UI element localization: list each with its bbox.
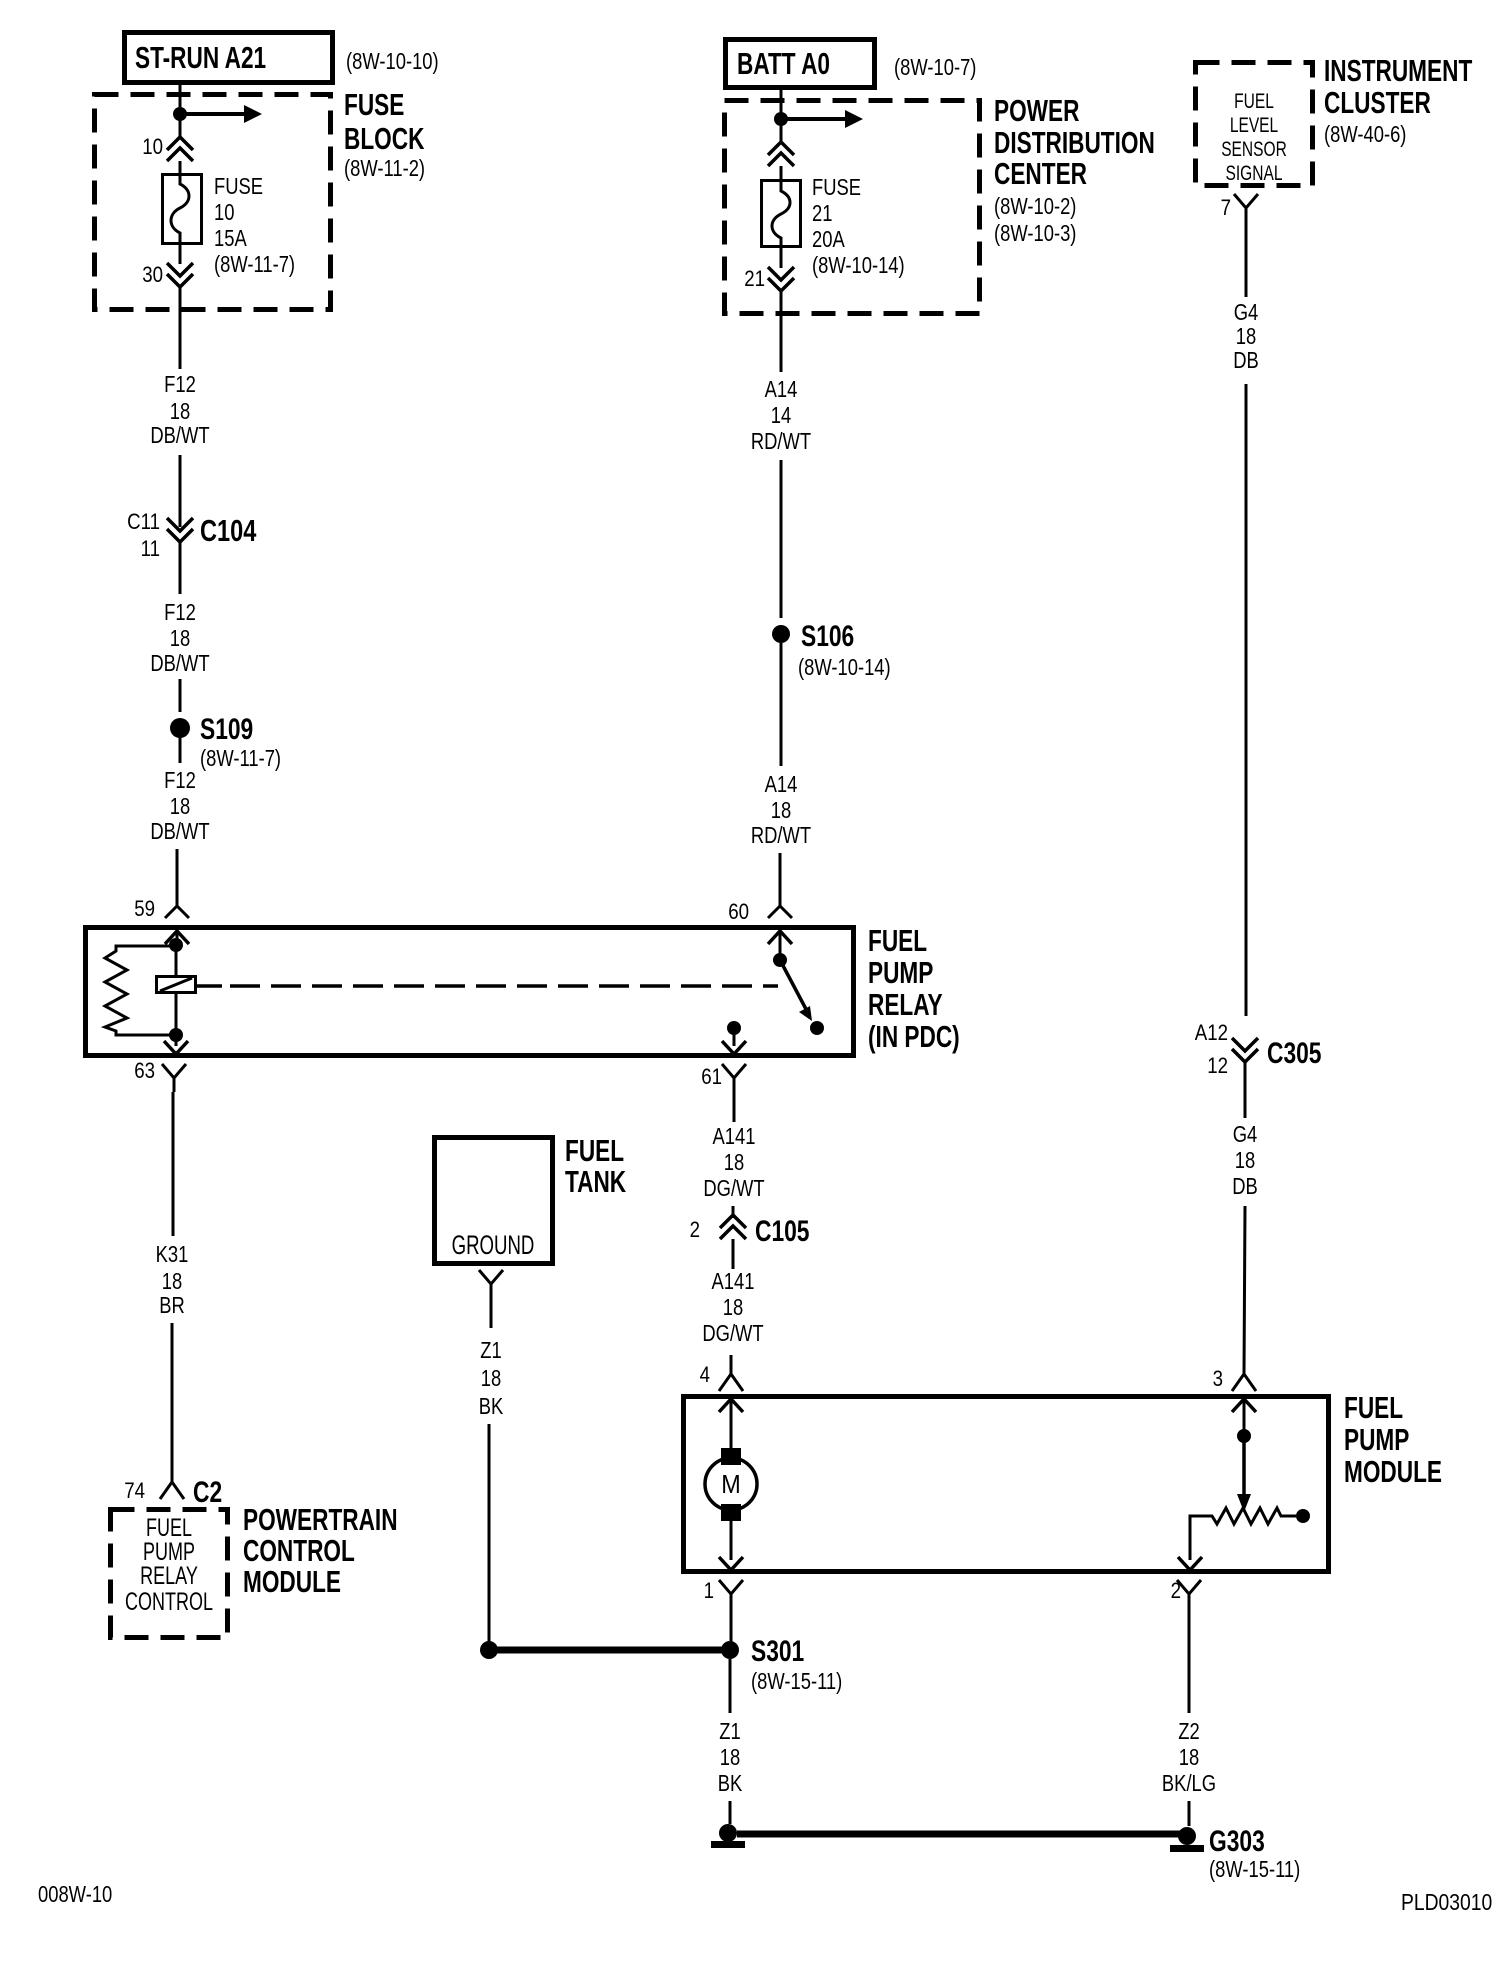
node switch common dot [773,953,787,967]
wire pin 61 [733,1028,736,1046]
node pin 61 dot [727,1021,741,1035]
label wire A141 18 DG/WT (upper) [703,1124,765,1201]
pin 2 connector halves [1177,1557,1202,1608]
powertrain control module dashed box [111,1510,228,1638]
wire S301 down [729,1659,732,1713]
svg-text:BR: BR [159,1293,185,1318]
wire pin 7 down [1245,222,1248,297]
svg-text:F12: F12 [164,768,196,793]
svg-text:CONTROL: CONTROL [125,1587,213,1616]
svg-text:MODULE: MODULE [1344,1453,1442,1488]
svg-text:20A: 20A [812,227,845,252]
node relay coil top junction [169,938,183,952]
node junction dot in PDC [774,112,788,126]
pin 10 connector chevron [167,137,193,161]
svg-text:11: 11 [141,538,160,562]
wire junction to connector [780,119,783,143]
wire C105 down [732,1239,735,1269]
splice S301 dot [721,1641,739,1659]
pin 4 connector half [719,1374,743,1391]
svg-text:TANK: TANK [565,1163,626,1198]
svg-text:18: 18 [481,1366,501,1391]
instrument cluster dashed enclosure [1196,63,1313,186]
wire arrow to other circuits [180,105,262,123]
pin 4 inner chevron [719,1399,743,1450]
svg-text:(8W-15-11): (8W-15-11) [751,1669,842,1694]
svg-text:60: 60 [728,901,749,925]
svg-text:GROUND: GROUND [452,1230,535,1260]
wire pin 30 out of fuse block [179,287,182,369]
node relay coil bottom junction [169,1028,183,1042]
splice S109 dot [170,718,190,738]
wire pin 63 down [172,1092,175,1236]
label G303 (8W-15-11) [1209,1824,1300,1883]
svg-text:63: 63 [134,1060,155,1084]
wire long run to C305 [1245,384,1248,1016]
svg-text:FUEL: FUEL [868,922,927,957]
svg-text:BK: BK [479,1394,504,1419]
connector C104 chevron [167,518,193,542]
svg-text:INSTRUMENT: INSTRUMENT [1324,52,1473,87]
svg-text:(8W-40-6): (8W-40-6) [1324,122,1406,147]
pin 1 connector halves [719,1557,743,1608]
label S106 (8W-10-14) [798,619,891,681]
wire link to S301 [489,1647,730,1654]
fuel tank box [435,1138,553,1264]
svg-text:PUMP: PUMP [868,954,933,989]
fuse 10 15A symbol [163,173,202,245]
wire fuse to pin 30 [179,244,182,264]
svg-text:18: 18 [170,399,190,424]
svg-text:7: 7 [1221,197,1231,221]
PDC connector chevron [768,142,794,166]
wire coil top [175,945,178,976]
svg-text:(8W-10-10): (8W-10-10) [346,49,439,74]
svg-text:C104: C104 [200,513,257,548]
wire tank ground down [490,1298,493,1328]
svg-text:C305: C305 [1267,1036,1322,1070]
wire ST-RUN A21 to junction [179,85,182,114]
wire S109 below [179,738,182,763]
svg-text:18: 18 [170,626,190,651]
svg-text:(8W-15-11): (8W-15-11) [1209,1857,1300,1882]
svg-text:G4: G4 [1234,300,1259,325]
svg-text:A141: A141 [713,1124,756,1149]
pin 7 connector half [1234,194,1258,222]
svg-text:18: 18 [724,1150,744,1175]
node BATT A0 feed box [726,40,875,88]
svg-text:18: 18 [771,798,791,823]
pin 21 connector chevron [768,267,794,291]
pin 61 connector halves [722,1041,746,1094]
svg-text:(8W-10-2): (8W-10-2) [994,194,1076,219]
label POWER DISTRIBUTION CENTER (8W-10-2) (8W-10-3) [994,92,1155,246]
svg-text:(8W-11-2): (8W-11-2) [344,156,425,181]
wire S106 down [780,643,783,766]
pin 60 connector halves [768,906,792,960]
svg-text:BATT A0: BATT A0 [737,45,830,80]
svg-text:C11: C11 [127,511,160,535]
svg-text:59: 59 [134,898,155,922]
wire coil to pin 63 [175,1035,178,1046]
svg-text:2: 2 [690,1219,700,1243]
node sender resistor end dot [1296,1509,1310,1523]
svg-text:A12: A12 [1195,1022,1228,1046]
svg-text:21: 21 [744,268,765,292]
svg-text:FUEL: FUEL [1344,1389,1403,1424]
svg-text:CLUSTER: CLUSTER [1324,84,1431,119]
svg-text:21: 21 [812,201,832,226]
label POWERTRAIN CONTROL MODULE [243,1501,398,1598]
svg-text:18: 18 [162,1269,182,1294]
svg-text:2: 2 [1171,1580,1181,1604]
resistor shunt across coil [105,946,176,1035]
label S301 (8W-15-11) [751,1634,842,1695]
svg-text:DB: DB [1232,1174,1258,1199]
svg-text:C2: C2 [193,1475,222,1509]
label wire Z1 18 BK (tank) [479,1338,504,1419]
fuse 21 20A symbol [762,181,801,248]
wire K31 to PCM [171,1323,174,1482]
wire ground link to G303 [737,1831,1180,1838]
svg-text:K31: K31 [156,1242,189,1267]
svg-text:FUEL: FUEL [1234,89,1274,113]
pin 63 connector halves [162,1041,188,1092]
wire tank ground to S301 link [488,1424,491,1645]
svg-text:C105: C105 [755,1214,810,1248]
sender variable resistor [1190,1508,1296,1560]
svg-text:S301: S301 [751,1634,804,1668]
splice S106 dot [772,625,790,643]
svg-text:F12: F12 [164,600,196,625]
connector C105 chevron [720,1215,746,1239]
svg-text:74: 74 [124,1480,145,1504]
wire pin 61 down [733,1094,736,1122]
label FUSE 21 20A (8W-10-14) [812,175,905,278]
fuel pump relay box [86,928,854,1056]
wire to connector C105 [732,1206,735,1218]
svg-text:18: 18 [1236,324,1256,349]
wire junction to pin 10 [179,114,182,138]
svg-text:(8W-10-3): (8W-10-3) [994,221,1076,246]
pin 59 connector halves [165,906,189,945]
label wire G4 18 DB (lower) [1232,1122,1258,1199]
svg-text:RD/WT: RD/WT [751,429,812,454]
svg-text:3: 3 [1213,1368,1223,1392]
svg-text:RD/WT: RD/WT [751,823,812,848]
svg-text:(8W-10-14): (8W-10-14) [812,253,905,278]
svg-text:(IN PDC): (IN PDC) [868,1018,960,1053]
wire to module pin 3 [1244,1206,1245,1374]
wire pin 1 to S301 [730,1608,733,1642]
pin 74 connector half [160,1482,184,1499]
svg-text:18: 18 [170,794,190,819]
wire arrow to other circuits [781,110,863,128]
svg-text:15A: 15A [214,226,247,251]
svg-text:(8W-11-7): (8W-11-7) [200,746,281,771]
node sender wiper junction dot [1237,1429,1251,1443]
power distribution center dashed enclosure [725,101,980,314]
svg-text:18: 18 [720,1745,740,1770]
wire pin 2 down [1188,1608,1191,1713]
label FUSE BLOCK (8W-11-2) [344,86,425,181]
wire to splice S109 [179,679,182,712]
svg-text:F12: F12 [164,372,196,397]
wire to connector C104 [179,455,182,527]
fuel pump module box [684,1397,1329,1572]
svg-text:PUMP: PUMP [1344,1421,1409,1456]
svg-text:S109: S109 [200,712,253,746]
svg-text:10: 10 [214,200,234,225]
svg-text:30: 30 [142,264,163,288]
wire to ground G303 link [729,1801,732,1824]
label wire K31 18 BR [156,1242,189,1318]
wire to fuse 21 [780,166,783,181]
label S109 (8W-11-7) [200,712,281,772]
svg-text:BLOCK: BLOCK [344,120,425,155]
label wire G4 18 DB (upper) [1233,300,1259,373]
svg-text:Z1: Z1 [719,1719,740,1744]
svg-text:BK/LG: BK/LG [1162,1771,1216,1796]
svg-text:CENTER: CENTER [994,155,1087,190]
node junction dot in fuse block [173,107,187,121]
dashed actuation line [196,984,778,988]
wire pin 10 to fuse [179,161,182,175]
label FUEL PUMP RELAY CONTROL [125,1513,213,1616]
label wire F12 18 DB/WT (lower) [150,768,209,844]
wire coil bottom [175,993,178,1035]
wire BATT A0 to junction [780,90,783,119]
wire to relay pin 59 [176,849,179,906]
svg-text:M: M [721,1471,740,1499]
svg-text:(8W-10-7): (8W-10-7) [894,55,976,80]
svg-text:DB: DB [1233,348,1259,373]
svg-text:14: 14 [771,403,791,428]
node ST-RUN A21 feed box [125,33,333,83]
svg-text:A141: A141 [712,1269,755,1294]
svg-text:DB/WT: DB/WT [150,819,209,844]
label FUEL PUMP RELAY (IN PDC) [868,922,960,1053]
label INSTRUMENT CLUSTER (8W-40-6) [1324,52,1473,147]
label wire A141 18 DG/WT (lower) [702,1269,764,1346]
svg-text:18: 18 [1179,1745,1199,1770]
svg-text:DB/WT: DB/WT [150,423,209,448]
wire to module pin 4 [730,1355,733,1374]
svg-text:DG/WT: DG/WT [703,1176,765,1201]
label wire F12 18 DB/WT (mid) [150,600,209,676]
label FUEL PUMP MODULE [1344,1389,1442,1488]
label wire Z2 18 BK/LG [1162,1719,1216,1796]
label wire A14 18 RD/WT [751,772,812,848]
svg-text:Z2: Z2 [1178,1719,1199,1744]
svg-text:G4: G4 [1233,1122,1258,1147]
svg-text:4: 4 [700,1364,710,1388]
svg-text:10: 10 [142,136,163,160]
wire to ground G303 [1188,1801,1191,1826]
svg-text:008W-10: 008W-10 [38,1882,112,1907]
wire pin 21 out of PDC [780,291,783,372]
svg-text:LEVEL: LEVEL [1230,113,1278,137]
svg-text:POWER: POWER [994,92,1080,127]
pin 30 connector chevron [167,263,193,287]
svg-text:ST-RUN A21: ST-RUN A21 [135,39,266,74]
svg-text:18: 18 [723,1295,743,1320]
wire to relay pin 60 [779,853,782,906]
pin 3 connector half [1232,1374,1256,1391]
svg-text:DB/WT: DB/WT [150,651,209,676]
svg-text:12: 12 [1207,1055,1228,1079]
svg-text:(8W-11-7): (8W-11-7) [214,252,295,277]
svg-text:BK: BK [718,1771,743,1796]
wire motor to pin 1 [730,1521,733,1560]
svg-text:61: 61 [701,1066,722,1090]
pin 3 inner chevron [1232,1399,1256,1436]
svg-text:18: 18 [1235,1148,1255,1173]
ground G303 symbol [1170,1827,1204,1852]
svg-text:SIGNAL: SIGNAL [1226,161,1283,185]
relay coil element [157,977,196,993]
label wire A14 14 RD/WT [751,377,812,454]
fuel tank ground connector half [479,1270,503,1298]
svg-text:A14: A14 [765,377,798,402]
connector C305 chevron [1232,1038,1258,1062]
svg-text:DG/WT: DG/WT [702,1321,764,1346]
svg-text:FUSE: FUSE [812,175,861,200]
wire fuse to pin 21 [780,246,783,268]
svg-text:FUSE: FUSE [344,86,404,121]
fuse block dashed enclosure [95,95,331,310]
node switch contact dot [810,1021,824,1035]
svg-text:1: 1 [704,1580,714,1604]
svg-text:G303: G303 [1209,1824,1265,1858]
svg-text:SENSOR: SENSOR [1221,137,1287,161]
ground symbol left [711,1824,745,1848]
svg-text:A14: A14 [765,772,798,797]
svg-text:RELAY: RELAY [868,986,943,1021]
svg-text:FUSE: FUSE [214,174,263,199]
svg-text:MODULE: MODULE [243,1563,341,1598]
wire C104 to label [179,542,182,594]
svg-text:PLD03010: PLD03010 [1401,1891,1492,1916]
svg-text:S106: S106 [801,619,854,653]
label FUEL TANK [565,1132,626,1198]
svg-text:(8W-10-14): (8W-10-14) [798,655,891,680]
label FUSE 10 15A (8W-11-7) [214,174,295,277]
label wire F12 18 DB/WT (top) [150,372,209,448]
switch arm with arrow [780,960,812,1021]
label wire Z1 18 BK (lower) [718,1719,743,1796]
wire to splice S106 [780,460,783,618]
node tank ground link dot [480,1641,498,1659]
wire C305 down [1244,1062,1247,1118]
svg-text:Z1: Z1 [480,1338,501,1363]
svg-text:RELAY: RELAY [140,1561,198,1590]
motor M fuel pump [705,1448,757,1521]
wiper arrow to sender resistor [1237,1436,1251,1512]
